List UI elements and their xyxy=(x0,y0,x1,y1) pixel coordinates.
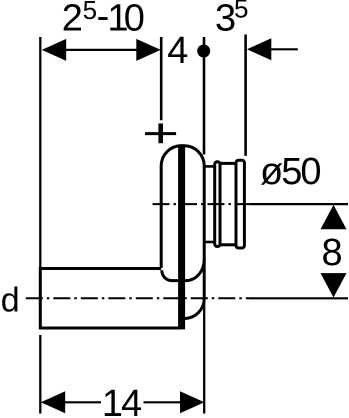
socket centerline (dash-dot) xyxy=(153,203,252,205)
8-dim down arrow xyxy=(321,273,347,297)
svg-text:14: 14 xyxy=(102,383,142,418)
socket lip ring xyxy=(215,162,220,247)
wall-mark cross: horizontal tick xyxy=(145,132,176,135)
inlet pipe d xyxy=(40,269,181,329)
8-dim top reference line (solid) xyxy=(251,203,348,205)
14-dim right extension line xyxy=(203,299,205,414)
extension line at body left (x=161.2) xyxy=(160,37,163,120)
label 3.5 xyxy=(215,0,248,39)
dot extension line xyxy=(203,37,206,155)
svg-text:8: 8 xyxy=(322,232,343,274)
8-dim bottom reference line (solid) xyxy=(250,297,348,299)
inner bend arc right of plate xyxy=(182,260,204,281)
flange body outline xyxy=(161,146,204,319)
socket barrel top line xyxy=(220,162,236,165)
inner bend arc left of plate xyxy=(162,270,181,280)
dimension 2.5-10 label xyxy=(62,0,145,39)
pipe centerline (dash-dot) xyxy=(26,297,250,299)
socket neck bottom line xyxy=(204,241,215,244)
wall-mark cross: vertical stub xyxy=(158,124,163,144)
extension line left (x=40.3) xyxy=(39,37,41,268)
dimension 14 line with arrows xyxy=(41,391,205,413)
dimension 3.5 arrow and tail xyxy=(247,38,298,60)
socket neck top line xyxy=(204,165,215,168)
socket barrel bottom line xyxy=(220,243,236,246)
dimension 2.5-10 line with arrows xyxy=(42,39,161,61)
svg-text:ø50: ø50 xyxy=(260,151,320,193)
flange plate bold line xyxy=(178,144,185,329)
svg-text:4: 4 xyxy=(167,30,188,72)
svg-text:5: 5 xyxy=(83,0,97,25)
svg-text:3: 3 xyxy=(215,0,236,39)
dimension dot at x=203.5 xyxy=(197,45,210,58)
svg-text:2: 2 xyxy=(62,0,83,39)
extension line at socket end (x=245.6) xyxy=(244,35,247,156)
socket end cap ring xyxy=(236,160,244,248)
8-dim up arrow xyxy=(321,205,347,229)
svg-text:0: 0 xyxy=(124,0,145,39)
svg-text:d: d xyxy=(1,282,20,320)
svg-text:5: 5 xyxy=(234,0,248,24)
14-dim left extension line xyxy=(39,335,41,414)
